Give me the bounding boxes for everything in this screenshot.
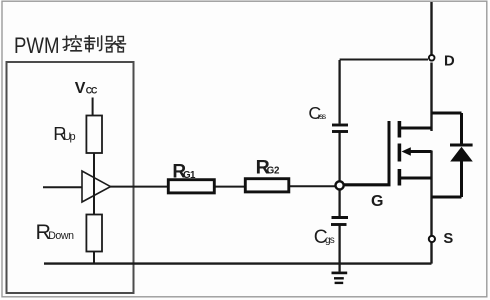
svg-text:Up: Up: [63, 131, 75, 143]
svg-text:rss: rss: [318, 111, 326, 121]
svg-text:D: D: [444, 54, 455, 70]
svg-text:S: S: [443, 231, 453, 247]
svg-text:G: G: [371, 193, 383, 210]
svg-text:Down: Down: [48, 230, 74, 242]
svg-text:gs: gs: [325, 235, 335, 246]
svg-text:G2: G2: [267, 165, 280, 176]
svg-text:V: V: [75, 80, 86, 97]
svg-text:PWM: PWM: [14, 33, 60, 58]
svg-text:CC: CC: [86, 86, 98, 96]
svg-text:G1: G1: [183, 170, 196, 181]
